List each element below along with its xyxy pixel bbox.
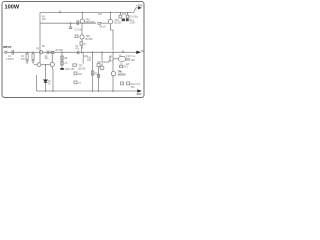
svg-text:C3 47p: C3 47p xyxy=(75,30,83,32)
svg-text:100W: 100W xyxy=(5,4,20,10)
svg-text:R17: R17 xyxy=(78,74,83,76)
svg-text:+35V: +35V xyxy=(136,3,143,7)
svg-text:R6 560: R6 560 xyxy=(56,50,64,52)
svg-text:BC546: BC546 xyxy=(86,39,94,41)
svg-text:INPUT: INPUT xyxy=(3,45,12,49)
svg-text:BD139: BD139 xyxy=(78,68,86,70)
svg-text:47K: 47K xyxy=(21,59,26,61)
svg-text:R18: R18 xyxy=(95,74,100,76)
svg-text:-35V: -35V xyxy=(136,92,142,96)
svg-text:R23 10R: R23 10R xyxy=(126,60,135,62)
svg-text:1K: 1K xyxy=(48,83,51,85)
svg-text:100u 25V: 100u 25V xyxy=(65,69,75,71)
svg-text:BD139: BD139 xyxy=(114,22,122,24)
svg-text:R9 1K: R9 1K xyxy=(99,27,106,29)
svg-text:C6 100u: C6 100u xyxy=(130,17,139,19)
svg-text:2.2/63V: 2.2/63V xyxy=(6,59,14,61)
svg-text:TR2: TR2 xyxy=(86,36,91,38)
svg-text:MPSA56: MPSA56 xyxy=(86,21,96,24)
svg-text:8R: 8R xyxy=(141,51,144,53)
svg-text:2N3055: 2N3055 xyxy=(118,74,127,76)
svg-text:22K: 22K xyxy=(42,19,47,21)
svg-text:R22 0.33: R22 0.33 xyxy=(131,84,141,86)
svg-text:C10 0.1u: C10 0.1u xyxy=(126,56,136,58)
svg-text:R12: R12 xyxy=(122,14,127,16)
svg-text:R21: R21 xyxy=(124,67,129,69)
svg-text:10K: 10K xyxy=(87,60,92,62)
svg-text:R11: R11 xyxy=(98,14,103,16)
svg-text:TR7: TR7 xyxy=(78,66,83,68)
svg-text:TR6: TR6 xyxy=(118,72,123,74)
svg-text:220R: 220R xyxy=(129,22,135,24)
svg-text:1K: 1K xyxy=(81,47,84,49)
